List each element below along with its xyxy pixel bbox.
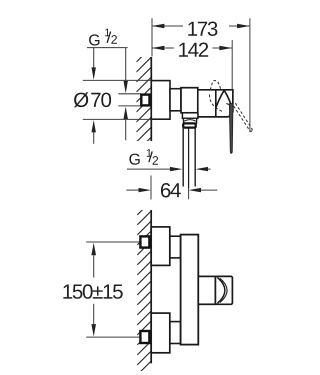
dashed lever swung-out position (lower line) <box>234 106 250 131</box>
leader arrow down-left from G1/2 <box>93 48 95 68</box>
text 70 <box>91 93 111 108</box>
extension line right for 173 (to swung lever tip) <box>249 18 251 132</box>
slash of top G 1/2 <box>107 32 110 43</box>
lower supply pipe (dark square) <box>140 331 149 343</box>
dimension 142 line <box>152 47 174 49</box>
opposing left arrow at hose right line <box>196 167 209 171</box>
body left edge below nut <box>197 113 199 117</box>
leader line: flange top edge extension <box>83 79 152 81</box>
cap crescent outer arc <box>217 277 225 303</box>
upper connector block <box>170 236 181 258</box>
dashed lever grip in raised position <box>210 80 221 89</box>
leader line: pipe top edge extension <box>118 93 141 95</box>
shower hose center line <box>188 128 190 189</box>
wall face line (side view) <box>150 57 152 141</box>
hose connection step 1 <box>182 113 198 119</box>
text 142 <box>179 42 208 56</box>
dashed lever swung-out position (upper line) <box>235 103 252 129</box>
text G <box>129 154 139 165</box>
slash of lower G 1/2 <box>149 151 152 162</box>
leader arrow down-right from G1/2 <box>125 48 127 82</box>
dashed swing arc of lever <box>210 95 223 112</box>
dimension 64: right extension (hose center extended) <box>188 189 190 200</box>
text 2 <box>111 35 117 44</box>
lever heel inner edge <box>226 104 230 106</box>
extension line left (wall face) for 173/142 <box>151 18 153 56</box>
text 64 <box>161 183 181 198</box>
wall hatching (front view wall band) <box>137 201 151 375</box>
mixer body (side view) <box>198 90 233 117</box>
dimension 142 right arrowhead <box>219 46 232 50</box>
dimension 150±15 vertical line upper segment <box>93 255 95 277</box>
dimension 142 left arrowhead <box>152 46 165 50</box>
dashed lever tip arc <box>250 129 252 131</box>
leader line: pipe bottom edge extension <box>118 105 141 107</box>
dimension 64 right arrow (outside) <box>189 188 202 192</box>
text 2 <box>153 156 159 165</box>
solid lever right edge <box>224 90 231 104</box>
up arrowhead <box>91 243 96 256</box>
text Ø <box>74 92 89 107</box>
dimension 64 left arrow (outside) <box>126 189 138 191</box>
escutcheon flange (side view) <box>151 81 170 120</box>
S-union body <box>170 89 181 111</box>
cartridge housing stem <box>198 276 215 304</box>
extension line lower connection center <box>86 336 140 338</box>
union nut <box>181 88 198 113</box>
upper escutcheon flange (front view) <box>151 227 170 266</box>
text 150±15 <box>63 284 122 299</box>
dimension 64: left extension line <box>150 176 152 200</box>
down arrowhead <box>91 324 96 337</box>
lower escutcheon flange (front view) <box>151 313 170 353</box>
dimension 173 left arrowhead <box>152 24 165 28</box>
hose nut (thick dark) <box>183 123 196 127</box>
lower connector block <box>170 322 181 344</box>
up arrow at flange bottom edge <box>93 132 95 143</box>
mixer body bar (front view) <box>181 235 199 345</box>
shower hose right line <box>194 128 196 187</box>
body outline redraw (over fill) <box>198 90 233 117</box>
handle grip bar (dark) <box>229 104 233 154</box>
body/cap divider line <box>215 90 217 117</box>
text 1 <box>147 149 152 157</box>
cap crescent inner arc <box>220 278 227 302</box>
supply pipe fitting in wall (dark square) <box>141 95 149 106</box>
shower hose left line <box>182 128 184 187</box>
hose connection step 2 with dome arc <box>184 118 197 123</box>
dimension 173 right arrowhead <box>237 24 250 28</box>
solid lever (down position) left edge <box>216 90 224 108</box>
underline of top G 1/2 <box>87 47 128 49</box>
dimension 173 line <box>152 25 183 27</box>
text G <box>89 34 99 45</box>
leader line: flange bottom edge extension <box>83 118 152 120</box>
wall hatching (side view wall band) <box>136 47 151 162</box>
upper supply pipe (dark square) <box>140 236 149 247</box>
extension line upper connection center <box>86 241 140 243</box>
cartridge housing cap <box>215 276 232 304</box>
text 1 <box>105 29 110 37</box>
wall face line (front view) <box>150 210 152 363</box>
underline / leader of lower G 1/2 with right arrow <box>127 168 170 170</box>
text 173 <box>188 21 217 36</box>
dimension 150±15 vertical line lower segment <box>93 304 95 324</box>
up arrow at pipe bottom edge <box>125 119 127 140</box>
extension line right for 142 <box>231 40 233 89</box>
